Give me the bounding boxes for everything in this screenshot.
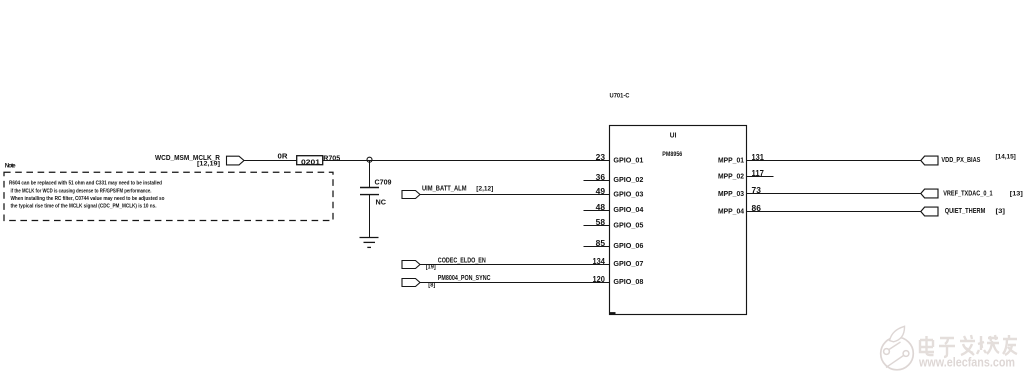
- IC U701-C PM8956 body: [610, 126, 747, 315]
- svg-text:85: 85: [596, 239, 606, 248]
- input port flag UIM_BATT_ALM: [402, 191, 420, 199]
- svg-text:QUIET_THERM: QUIET_THERM: [945, 208, 986, 215]
- 友: [1003, 335, 1017, 355]
- svg-text:VDD_PX_BIAS: VDD_PX_BIAS: [941, 157, 980, 164]
- wire flag to resistor: [244, 160, 297, 162]
- pin stub GPIO_04 pin 48: [584, 210, 610, 212]
- svg-text:Note: Note: [5, 163, 16, 169]
- wire junction to capacitor: [369, 161, 371, 188]
- svg-text:C709: C709: [375, 180, 392, 187]
- svg-text:U701-C: U701-C: [610, 93, 630, 100]
- svg-text:134: 134: [593, 257, 606, 266]
- pin stub MPP_02 pin 117: [747, 176, 774, 178]
- svg-text:CODEC_ELDO_EN: CODEC_ELDO_EN: [438, 257, 486, 264]
- svg-text:GPIO_05: GPIO_05: [613, 221, 643, 230]
- svg-text:if the MCLK for WCD is causing: if the MCLK for WCD is causing desense t…: [11, 188, 152, 194]
- watermark logo: [881, 326, 914, 370]
- svg-text:GPIO_07: GPIO_07: [613, 259, 643, 268]
- wire capacitor to ground: [369, 195, 371, 238]
- svg-text:GPIO_06: GPIO_06: [613, 241, 643, 250]
- pin stub GPIO_02 pin 36: [584, 180, 610, 182]
- svg-text:120: 120: [593, 275, 606, 284]
- wire resistor to pin 23: [323, 160, 610, 162]
- wire UIM_BATT_ALM to pin 49: [420, 194, 610, 196]
- svg-text:MPP_03: MPP_03: [718, 189, 744, 198]
- pin stub GPIO_05 pin 58: [584, 225, 610, 227]
- capacitor C709: [360, 187, 379, 189]
- svg-text:VREF_TXDAC_0_1: VREF_TXDAC_0_1: [943, 191, 992, 198]
- output port flag QUIET_THERM: [921, 207, 938, 216]
- svg-text:[14,15]: [14,15]: [996, 154, 1016, 161]
- 烧: [977, 335, 999, 354]
- wire PM8004_PON_SYNC to pin 120: [420, 282, 610, 284]
- svg-text:GPIO_01: GPIO_01: [613, 156, 643, 165]
- note box: [4, 172, 333, 220]
- junction: [367, 157, 372, 162]
- wire CODEC_ELDO_EN to pin 134: [420, 264, 610, 266]
- svg-text:MPP_01: MPP_01: [718, 156, 744, 165]
- wire pin 86 to flag: [747, 211, 921, 213]
- svg-text:R705: R705: [323, 153, 340, 162]
- IC bottom-left notch: [610, 312, 616, 314]
- svg-text:[13]: [13]: [1010, 191, 1023, 198]
- svg-text:GPIO_04: GPIO_04: [613, 205, 644, 214]
- svg-text:GPIO_08: GPIO_08: [613, 277, 643, 286]
- svg-text:36: 36: [596, 173, 606, 182]
- wire pin 73 to flag: [747, 193, 921, 195]
- svg-text:When installing the RC filter,: When installing the RC filter, C0744 val…: [11, 196, 165, 202]
- svg-text:0R: 0R: [278, 153, 288, 160]
- svg-text:23: 23: [596, 153, 606, 162]
- svg-text:R604 can be replaced with 51 o: R604 can be replaced with 51 ohm and C33…: [9, 181, 162, 187]
- svg-text:the typical rise time of the M: the typical rise time of the MCLK signal…: [11, 204, 157, 210]
- svg-text:www.elecfans.com: www.elecfans.com: [918, 355, 1015, 370]
- svg-text:UI: UI: [670, 133, 677, 140]
- 发: [960, 335, 975, 355]
- svg-text:PM8004_PON_SYNC: PM8004_PON_SYNC: [438, 275, 491, 282]
- svg-text:GPIO_03: GPIO_03: [613, 190, 643, 199]
- ground: [360, 237, 379, 239]
- output port flag VDD_PX_BIAS: [921, 156, 938, 165]
- svg-text:48: 48: [596, 203, 606, 212]
- watermark text elecfans chinese: [920, 335, 1017, 357]
- svg-text:PM8956: PM8956: [662, 151, 682, 158]
- resistor R705 body 0201: [297, 156, 323, 165]
- svg-text:NC: NC: [376, 197, 387, 206]
- svg-text:[2,12]: [2,12]: [476, 185, 493, 192]
- svg-text:[12,19]: [12,19]: [197, 161, 220, 168]
- note text: [9, 181, 165, 210]
- 子: [939, 338, 955, 357]
- svg-text:UIM_BATT_ALM: UIM_BATT_ALM: [422, 185, 467, 192]
- svg-text:58: 58: [596, 218, 606, 227]
- svg-text:49: 49: [596, 187, 606, 196]
- 电: [920, 336, 934, 355]
- input port flag CODEC_ELDO_EN: [402, 261, 420, 269]
- svg-text:0201: 0201: [301, 159, 320, 166]
- svg-text:[3]: [3]: [996, 208, 1006, 215]
- input port flag PM8004_PON_SYNC: [402, 279, 420, 287]
- output port flag VREF_TXDAC_0_1: [921, 189, 938, 198]
- wire pin 131 to flag: [747, 160, 921, 162]
- input port flag WCD_MSM_MCLK_R: [227, 156, 245, 165]
- svg-text:MPP_02: MPP_02: [718, 172, 744, 181]
- pin stub GPIO_06 pin 85: [584, 246, 610, 248]
- svg-text:GPIO_02: GPIO_02: [613, 175, 643, 184]
- svg-text:MPP_04: MPP_04: [718, 207, 745, 216]
